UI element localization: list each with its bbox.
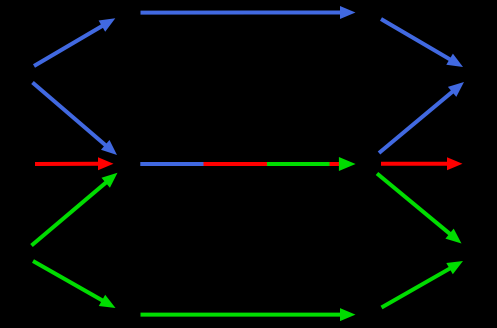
wire red arrow: middle-right node to right edge — [381, 157, 463, 170]
wire composite middle arrow (blue/red/green shared edge): middle-left node to middle-right node — [140, 157, 355, 171]
wire blue arrow: middle-right node up-right to right node — [379, 82, 464, 153]
wire blue arrow: left node down-right to middle-left node — [33, 83, 118, 156]
wire green arrow: middle-right node down-right to right-bottom node — [377, 174, 462, 244]
wire blue arrow: top horizontal, top-left node to top-right node — [141, 6, 356, 19]
wire blue arrow: top-right node down-right to right node — [381, 19, 463, 67]
wire blue arrow: left node up-right to top-left node — [34, 18, 115, 66]
wire green arrow: left-bottom node down-right to bottom-left node — [33, 261, 116, 308]
wire green arrow: left-bottom node up-right to middle-left node — [32, 173, 118, 246]
wire green arrow: bottom horizontal, bottom-left node to bottom-right node — [141, 308, 356, 321]
wire red arrow: left edge to middle-left node — [35, 157, 114, 170]
wire green arrow: bottom-right node up-right to right-bottom node — [382, 261, 464, 308]
